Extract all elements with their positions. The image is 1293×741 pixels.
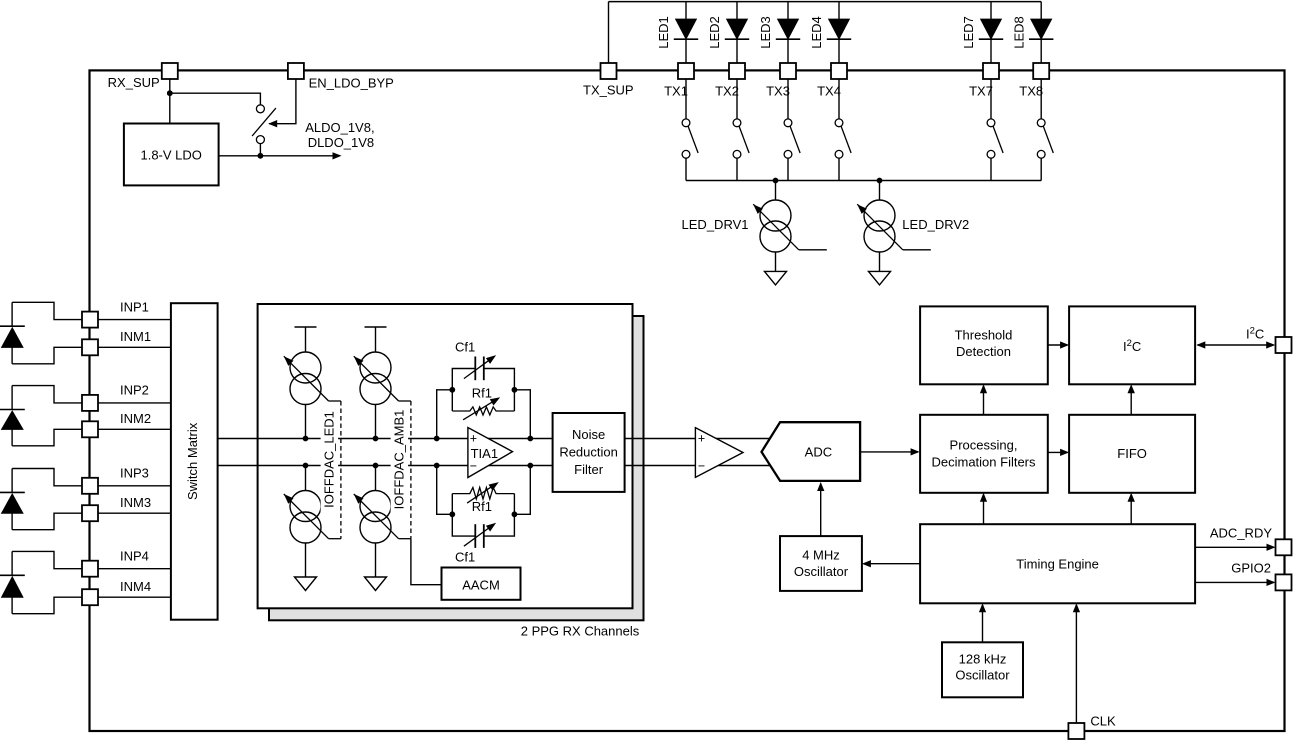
svg-text:Cf1: Cf1: [455, 339, 475, 354]
wire Timing Engine to Processing (arrow): [983, 494, 985, 524]
svg-text:IOFFDAC_AMB1: IOFFDAC_AMB1: [392, 410, 407, 510]
switch TX1 driver select: [682, 119, 690, 127]
wire switch to LDO output node: [259, 143, 261, 156]
svg-text:TX_SUP: TX_SUP: [583, 83, 634, 98]
wire junction to 1.8-V LDO input: [169, 93, 171, 123]
net LED anode supply rail (top): [609, 1, 1042, 3]
node junction positive rail / feedback right: [527, 436, 533, 442]
svg-text:TX1: TX1: [664, 84, 688, 99]
wire negative rail to IOFFDAC_AMB1 bottom source: [375, 466, 377, 491]
wire common rail to LED_DRV1: [775, 181, 777, 201]
pin TX2: [729, 63, 745, 79]
svg-text:FIFO: FIFO: [1117, 446, 1147, 461]
svg-text:Cf1: Cf1: [455, 549, 475, 564]
svg-text:DLDO_1V8: DLDO_1V8: [308, 135, 374, 150]
wire LED rail to LED1 anode: [685, 2, 687, 20]
wire negative rail to bottom feedback network: [437, 466, 453, 515]
node junction LDO output: [258, 153, 264, 159]
wire switch TX1 to common rail: [685, 158, 687, 180]
pin INM4: [82, 589, 98, 605]
pin ADC_RDY: [1276, 539, 1292, 555]
wire PD1 cathode to pin INP1: [12, 302, 82, 319]
svg-text:Rf1: Rf1: [472, 386, 492, 401]
control line IOFFDAC_AMB1 (dashed): [399, 400, 411, 402]
ground below IOFFDAC_AMB1: [365, 577, 387, 591]
wire pin INP2 to switch matrix: [98, 402, 171, 404]
photodiode PD2: [11, 386, 13, 410]
block Processing, Decimation Filters: [920, 415, 1048, 493]
pin TX_SUP: [601, 63, 617, 79]
wire pin TX7 to switch: [990, 79, 992, 119]
wire LED_DRV1 to ground: [775, 253, 777, 272]
supply tap above IOFFDAC_AMB1 top source: [365, 326, 387, 328]
capacitor Cf1 (top, variable): [452, 369, 514, 390]
switch TX7 driver select: [987, 119, 995, 127]
wire pin INP3 to switch matrix: [98, 485, 171, 487]
svg-text:−: −: [698, 459, 705, 473]
net LED driver common rail: [686, 180, 1041, 182]
switch TX8 driver select: [1037, 119, 1045, 127]
wire pin INP1 to switch matrix: [98, 319, 171, 321]
wire pin INM2 to switch matrix: [98, 428, 171, 430]
svg-text:Decimation Filters: Decimation Filters: [931, 455, 1036, 470]
pin RX_SUP: [162, 63, 178, 79]
wire pin TX1 to switch: [685, 79, 687, 119]
wire Timing Engine to 4 MHz Oscillator (arrow): [864, 563, 921, 565]
wire IOFFDAC_AMB1 control to AACM: [411, 539, 442, 585]
block Timing Engine: [920, 524, 1195, 603]
current source IOFFDAC_AMB1 top (offset cancellation): [360, 352, 391, 383]
pin I2C: [1276, 337, 1292, 353]
svg-text:LED2: LED2: [707, 16, 722, 49]
control line IOFFDAC_LED1 (dashed): [329, 400, 341, 402]
svg-text:AACM: AACM: [462, 578, 500, 593]
wire pin TX2 to switch: [736, 79, 738, 119]
current source IOFFDAC_LED1 bottom (offset cancellation): [290, 491, 321, 522]
wire LDO output to ALDO_1V8/DLDO_1V8 (arrow): [219, 155, 340, 157]
pin TX8: [1033, 63, 1049, 79]
svg-text:TX8: TX8: [1019, 84, 1043, 99]
block FIFO: [1069, 415, 1195, 493]
node junction positive rail / feedback left: [434, 436, 440, 442]
svg-text:LED_DRV2: LED_DRV2: [902, 217, 969, 232]
photodiode PD1: [11, 302, 13, 326]
svg-text:Switch Matrix: Switch Matrix: [185, 422, 200, 500]
net RX chain positive rail: [217, 438, 771, 440]
svg-text:INP4: INP4: [120, 549, 149, 564]
svg-text:GPIO2: GPIO2: [1231, 561, 1271, 576]
block I2C interface: [1069, 306, 1195, 384]
wire Timing Engine to FIFO (arrow): [1130, 494, 1132, 524]
pin INP1: [82, 312, 98, 328]
svg-text:CLK: CLK: [1090, 714, 1116, 729]
wire Timing Engine to pin GPIO2 (arrow): [1195, 581, 1274, 583]
wire LED rail to LED8 anode: [1040, 2, 1042, 20]
svg-text:Oscillator: Oscillator: [955, 667, 1010, 682]
wire switch TX8 to common rail: [1040, 158, 1042, 180]
diode LED3: [778, 19, 798, 39]
wire FIFO to I2C (arrow): [1130, 386, 1132, 415]
pin TX7: [983, 63, 999, 79]
node junction common rail / LED_DRV2: [877, 178, 883, 184]
wire PD3 anode to pin INM3: [12, 513, 82, 530]
node junction negative rail / feedback right: [527, 463, 533, 469]
wire common rail to LED_DRV2: [879, 181, 881, 201]
wire pin TX8 to switch: [1040, 79, 1042, 119]
wire LED_DRV2 to ground: [879, 253, 881, 272]
pin EN_LDO_BYP: [288, 63, 304, 79]
wire LED7 cathode to pin TX7: [990, 39, 992, 63]
wire PD3 cathode to pin INP3: [12, 469, 82, 486]
wire pin INM1 to switch matrix: [98, 346, 171, 348]
wire LED rail to LED2 anode: [736, 2, 738, 20]
pin INM3: [82, 505, 98, 521]
current source LED_DRV1 (programmable LED driver): [760, 200, 791, 231]
svg-text:LED8: LED8: [1011, 16, 1026, 49]
wire LED rail to LED7 anode: [990, 2, 992, 20]
svg-text:INM2: INM2: [120, 411, 151, 426]
current source IOFFDAC_AMB1 bottom (offset cancellation): [360, 491, 391, 522]
label IOFFDAC_AMB1: [391, 406, 409, 513]
wire pin INM4 to switch matrix: [98, 596, 171, 598]
diode LED8: [1031, 19, 1051, 39]
wire PD4 cathode to pin INP4: [12, 551, 82, 568]
op-amp output buffer: [695, 428, 743, 478]
wire PD4 anode to pin INM4: [12, 597, 82, 614]
pin INP4: [82, 561, 98, 577]
node bottom feedback left: [449, 511, 455, 517]
wire pin CLK to Timing Engine (arrow): [1075, 605, 1077, 723]
svg-text:Oscillator: Oscillator: [794, 564, 849, 579]
wire positive rail to top feedback network: [437, 390, 453, 439]
pin CLK: [1068, 723, 1084, 739]
pin TX1: [678, 63, 694, 79]
resistor Rf1 (bottom, variable): [451, 494, 453, 515]
svg-text:ALDO_1V8,: ALDO_1V8,: [305, 120, 374, 135]
svg-text:INP2: INP2: [120, 383, 149, 398]
svg-text:LED3: LED3: [758, 16, 773, 49]
svg-text:RX_SUP: RX_SUP: [108, 75, 160, 90]
wire PD2 anode to pin INM2: [12, 429, 82, 446]
svg-text:Noise: Noise: [572, 427, 605, 442]
svg-text:TX7: TX7: [969, 84, 993, 99]
op-amp TIA1: [468, 428, 513, 478]
wire LED1 cathode to pin TX1: [685, 39, 687, 63]
wire switch TX7 to common rail: [990, 158, 992, 180]
svg-text:INM4: INM4: [120, 579, 151, 594]
svg-text:TX3: TX3: [766, 84, 790, 99]
wire LED8 cathode to pin TX8: [1040, 39, 1042, 63]
block 128 kHz Oscillator: [942, 642, 1023, 697]
capacitor Cf1 (bottom, variable): [452, 514, 514, 536]
block AACM: [442, 568, 521, 600]
node junction RX_SUP feed: [167, 90, 173, 96]
resistor Rf1 (top, variable): [451, 390, 453, 411]
block 1.8-V LDO: [124, 124, 219, 186]
wire RX_SUP down to junction: [169, 79, 171, 93]
wire IOFFDAC_LED1 bottom source to ground: [305, 543, 307, 577]
wire PD1 anode to pin INM1: [12, 347, 82, 364]
svg-text:Timing Engine: Timing Engine: [1016, 556, 1099, 571]
node junction common rail / LED_DRV1: [773, 178, 779, 184]
svg-text:I2C: I2C: [1123, 338, 1141, 354]
wire negative rail to IOFFDAC_LED1 bottom source: [305, 466, 307, 491]
supply tap above IOFFDAC_LED1 top source: [295, 326, 317, 328]
wire junction to LDO bypass switch: [170, 93, 261, 105]
node junction negative rail / feedback left: [434, 463, 440, 469]
diode LED2: [727, 19, 747, 39]
wire LED3 cathode to pin TX3: [787, 39, 789, 63]
switch TX2 driver select: [733, 119, 741, 127]
node junction negative rail / IOFFDAC_AMB1: [373, 463, 379, 469]
svg-text:IOFFDAC_LED1: IOFFDAC_LED1: [322, 411, 337, 508]
photodiode PD3: [11, 469, 13, 493]
svg-text:TIA1: TIA1: [471, 446, 498, 461]
wire pin TX3 to switch: [787, 79, 789, 119]
pin INP2: [82, 395, 98, 411]
wire pin INM3 to switch matrix: [98, 512, 171, 514]
block 4 MHz Oscillator: [780, 536, 862, 591]
pin TX4: [831, 63, 847, 79]
wire switch TX3 to common rail: [787, 158, 789, 180]
svg-text:4 MHz: 4 MHz: [802, 548, 840, 563]
svg-text:2 PPG RX Channels: 2 PPG RX Channels: [521, 624, 640, 639]
wire PD2 cathode to pin INP2: [12, 386, 82, 403]
svg-text:INM3: INM3: [120, 495, 151, 510]
node junction positive rail / IOFFDAC_LED1: [303, 436, 309, 442]
pin GPIO2: [1276, 574, 1292, 590]
svg-text:LED1: LED1: [656, 16, 671, 49]
svg-text:LED4: LED4: [809, 16, 824, 49]
svg-text:TX2: TX2: [715, 84, 739, 99]
ground below LED_DRV2: [869, 271, 891, 285]
wire TX_SUP to LED rail: [608, 2, 610, 63]
svg-text:128 kHz: 128 kHz: [959, 651, 1007, 666]
wire LED2 cathode to pin TX2: [736, 39, 738, 63]
wire Processing to Threshold Detection (arrow): [983, 386, 985, 415]
switch LDO bypass: [256, 105, 264, 113]
pin INM1: [82, 339, 98, 355]
ground below IOFFDAC_LED1: [295, 577, 317, 591]
node bottom feedback right: [512, 511, 518, 517]
svg-text:+: +: [698, 432, 705, 446]
wire pin INP4 to switch matrix: [98, 568, 171, 570]
svg-text:I2C: I2C: [1246, 326, 1264, 342]
photodiode PD4: [11, 551, 13, 575]
wire LED rail to LED4 anode: [838, 2, 840, 20]
wire switch TX4 to common rail: [838, 158, 840, 180]
svg-text:Rf1: Rf1: [472, 499, 492, 514]
pin INM2: [82, 421, 98, 437]
pin INP3: [82, 478, 98, 494]
wire 4 MHz Oscillator clock to ADC (arrow): [820, 484, 822, 537]
svg-text:−: −: [470, 459, 477, 473]
wire 128 kHz Oscillator to Timing Engine (arrow): [982, 605, 984, 642]
wire pin TX4 to switch: [838, 79, 840, 119]
diode LED4: [829, 19, 849, 39]
svg-text:Threshold: Threshold: [955, 327, 1013, 342]
2 PPG RX Channels front box: [258, 304, 633, 608]
svg-text:ADC_RDY: ADC_RDY: [1210, 526, 1272, 541]
wire switch TX2 to common rail: [736, 158, 738, 180]
wire ADC output to Processing (arrow): [860, 451, 918, 453]
svg-text:1.8-V LDO: 1.8-V LDO: [140, 148, 201, 163]
wire LED rail to LED3 anode: [787, 2, 789, 20]
svg-text:ADC: ADC: [805, 445, 832, 460]
ground below LED_DRV1: [765, 271, 787, 285]
switch TX4 driver select: [835, 119, 843, 127]
block Threshold Detection: [920, 306, 1048, 384]
svg-text:INM1: INM1: [120, 329, 151, 344]
svg-text:Reduction: Reduction: [559, 445, 618, 460]
current source IOFFDAC_LED1 top (offset cancellation): [290, 352, 321, 383]
node top feedback left: [449, 387, 455, 393]
block ADC: [762, 422, 861, 481]
current source LED_DRV2 (programmable LED driver): [864, 200, 895, 231]
node junction negative rail / IOFFDAC_LED1: [303, 463, 309, 469]
wire EN_LDO_BYP control to switch: [269, 79, 296, 124]
block Noise Reduction Filter: [553, 413, 625, 492]
diode LED7: [981, 19, 1001, 39]
node junction positive rail / IOFFDAC_AMB1: [373, 436, 379, 442]
svg-text:LED_DRV1: LED_DRV1: [682, 217, 749, 232]
wire Processing to FIFO (arrow): [1048, 451, 1068, 453]
node top feedback right: [512, 387, 518, 393]
wire Timing Engine to pin ADC_RDY (arrow): [1195, 546, 1274, 548]
svg-text:EN_LDO_BYP: EN_LDO_BYP: [309, 76, 394, 91]
pin TX3: [780, 63, 796, 79]
diode LED1: [676, 19, 696, 39]
wire I2C block to pin I2C (double arrow): [1198, 344, 1274, 346]
label IOFFDAC_LED1: [321, 406, 339, 513]
wire LED4 cathode to pin TX4: [838, 39, 840, 63]
svg-text:Detection: Detection: [956, 344, 1011, 359]
wire IOFFDAC_AMB1 top source to positive rail: [375, 405, 377, 439]
net RX chain negative rail: [217, 465, 771, 467]
wire IOFFDAC_AMB1 bottom source to ground: [375, 543, 377, 577]
2 PPG RX Channels back box (shadow): [269, 316, 644, 620]
wire Threshold Detection to I2C (arrow): [1048, 344, 1068, 346]
svg-text:INP3: INP3: [120, 466, 149, 481]
block Switch Matrix: [171, 303, 218, 620]
svg-text:LED7: LED7: [961, 16, 976, 49]
svg-text:Filter: Filter: [574, 462, 604, 477]
svg-text:Processing,: Processing,: [950, 437, 1018, 452]
svg-text:TX4: TX4: [817, 84, 841, 99]
svg-text:INP1: INP1: [120, 299, 149, 314]
wire IOFFDAC_LED1 top source to positive rail: [305, 405, 307, 439]
svg-text:+: +: [470, 432, 477, 446]
switch TX3 driver select: [784, 119, 792, 127]
